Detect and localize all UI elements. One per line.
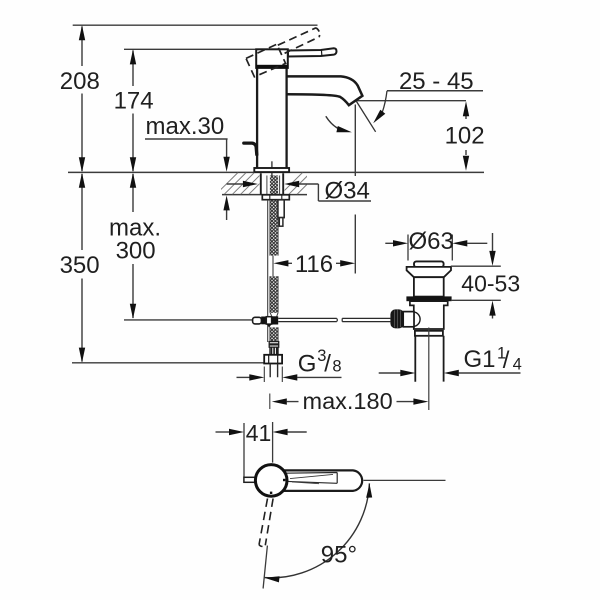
dashed lever (raised position) xyxy=(278,28,316,45)
base flange xyxy=(254,168,289,172)
aerator swivel curved arrow xyxy=(326,116,339,129)
drain plug cap xyxy=(414,261,444,267)
body circle (plan) xyxy=(255,465,287,497)
dim 116 xyxy=(288,262,342,264)
rubber seal (black) xyxy=(406,296,451,301)
svg-text:350: 350 xyxy=(60,252,100,279)
rod port xyxy=(403,312,414,327)
svg-text:102: 102 xyxy=(445,123,485,150)
dim G3/8 xyxy=(264,367,282,383)
dim 41 xyxy=(216,431,230,433)
arc arrowhead up (at lever) xyxy=(366,484,372,498)
tailpipe top ring xyxy=(415,331,443,336)
hose end ferrule xyxy=(269,342,279,344)
pull rod to drain xyxy=(278,318,337,321)
locknut xyxy=(262,195,289,200)
lever bar (plan) xyxy=(282,470,362,491)
drain centerline xyxy=(428,328,430,411)
dim 174 xyxy=(132,51,134,172)
hose left outline xyxy=(267,200,269,342)
SECTION: drain xyxy=(390,261,451,410)
svg-text:4: 4 xyxy=(513,356,522,374)
cartridge black band xyxy=(256,65,289,69)
rigid tube right of hose xyxy=(278,200,284,218)
faucet centerline stub above deck xyxy=(271,161,273,176)
dim D63 xyxy=(408,235,452,261)
svg-text:300: 300 xyxy=(116,238,156,265)
dim 350 xyxy=(81,174,83,362)
svg-text:40-53: 40-53 xyxy=(461,270,520,296)
drain flange xyxy=(407,267,451,277)
SECTION: deck xyxy=(216,173,319,200)
lever inner detail xyxy=(284,473,337,484)
dim 40-53 xyxy=(451,266,501,300)
deck hatch right of hole xyxy=(281,173,319,195)
svg-text:G1: G1 xyxy=(464,346,496,373)
pop-up pull rod: left coupling xyxy=(253,317,262,324)
dim max.300 xyxy=(132,174,134,318)
drain upper body xyxy=(414,277,444,296)
dim 208 xyxy=(81,27,83,172)
radius line xyxy=(263,546,267,589)
svg-text:25 - 45: 25 - 45 xyxy=(399,68,474,95)
svg-text:max.180: max.180 xyxy=(303,388,393,414)
lever back stub xyxy=(244,477,256,482)
arc arrowhead left (at radius line) xyxy=(264,576,279,582)
knurled knob xyxy=(390,309,404,328)
dim 102 xyxy=(465,116,467,155)
svg-text:/: / xyxy=(503,347,510,374)
SECTION: main faucet xyxy=(244,28,387,176)
lever handle (solid) xyxy=(288,48,337,56)
svg-text:8: 8 xyxy=(332,358,341,376)
faucet column xyxy=(258,69,286,168)
41 extension lines xyxy=(244,422,273,477)
hose tail below nut xyxy=(270,364,277,378)
svg-text:208: 208 xyxy=(60,68,100,95)
SECTION: below-deck hoses xyxy=(253,200,391,377)
leader curve from 25-45 xyxy=(382,91,387,112)
dim G1 1/4 xyxy=(379,372,401,374)
SECTION: texts xyxy=(60,68,522,569)
svg-text:G: G xyxy=(298,350,317,377)
95 deg arc xyxy=(265,483,370,577)
dashed rotated lever (plan) xyxy=(259,499,268,545)
spout xyxy=(286,76,362,105)
drain lower body xyxy=(410,301,448,329)
faucet shank in hole xyxy=(261,173,283,194)
SECTION: reference lines xyxy=(68,25,484,363)
dim max.180 xyxy=(269,394,271,410)
hose taper above rod xyxy=(270,313,278,318)
ribbed section xyxy=(270,347,278,355)
svg-text:95°: 95° xyxy=(321,542,357,569)
deck hatch left of hole xyxy=(216,173,271,195)
svg-text:/: / xyxy=(324,351,331,378)
svg-text:max.30: max.30 xyxy=(146,113,225,140)
G3/8 nut xyxy=(264,355,282,364)
SECTION: plan view xyxy=(244,422,446,589)
svg-text:116: 116 xyxy=(295,251,333,278)
95 deg reference line xyxy=(364,479,446,481)
svg-text:41: 41 xyxy=(246,420,272,446)
svg-text:Ø63: Ø63 xyxy=(409,228,454,255)
dim D34 arrows xyxy=(227,183,244,185)
braided hose segment 1 xyxy=(270,200,278,256)
dim max.30 leader xyxy=(145,139,228,157)
water stream diagonal xyxy=(356,101,375,132)
dashed cartridge (raised position) xyxy=(246,44,286,77)
braided hose segment 2 xyxy=(270,276,278,313)
tailpipe xyxy=(415,336,443,382)
braided hose segment 3 xyxy=(270,327,278,341)
svg-text:174: 174 xyxy=(114,88,154,115)
hose plain gap edge xyxy=(272,256,274,277)
SECTION: dimensions xyxy=(79,25,521,435)
cartridge head xyxy=(256,49,288,68)
svg-text:Ø34: Ø34 xyxy=(325,177,370,204)
pop-up rod hook xyxy=(244,143,257,155)
